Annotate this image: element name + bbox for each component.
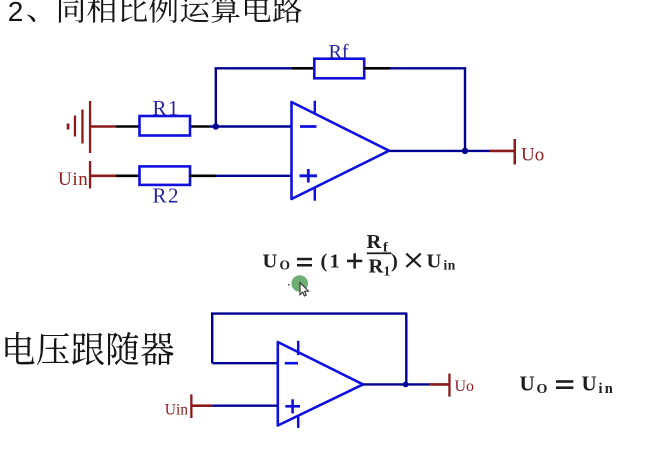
- svg-text:Uin: Uin: [165, 402, 189, 419]
- svg-text:R2: R2: [153, 184, 181, 208]
- svg-text:U: U: [263, 250, 278, 272]
- svg-text:Uo: Uo: [455, 378, 475, 395]
- svg-text:O: O: [537, 382, 548, 397]
- svg-text:1: 1: [330, 250, 340, 272]
- svg-text:U: U: [582, 371, 597, 395]
- svg-text:Uo: Uo: [521, 145, 544, 166]
- svg-text:): ): [391, 250, 398, 272]
- svg-text:U: U: [520, 371, 535, 395]
- svg-text:R1: R1: [153, 96, 181, 120]
- svg-text:R: R: [367, 231, 382, 253]
- svg-text:U: U: [427, 250, 442, 272]
- svg-text:2: 2: [8, 0, 24, 27]
- svg-text:in: in: [599, 381, 616, 397]
- svg-text:Rf: Rf: [329, 41, 349, 63]
- svg-text:R: R: [369, 255, 384, 277]
- svg-text:in: in: [444, 258, 456, 273]
- svg-text:O: O: [280, 258, 291, 273]
- svg-text:Uin: Uin: [58, 169, 88, 190]
- svg-text:(: (: [321, 250, 328, 272]
- svg-text:1: 1: [384, 264, 391, 279]
